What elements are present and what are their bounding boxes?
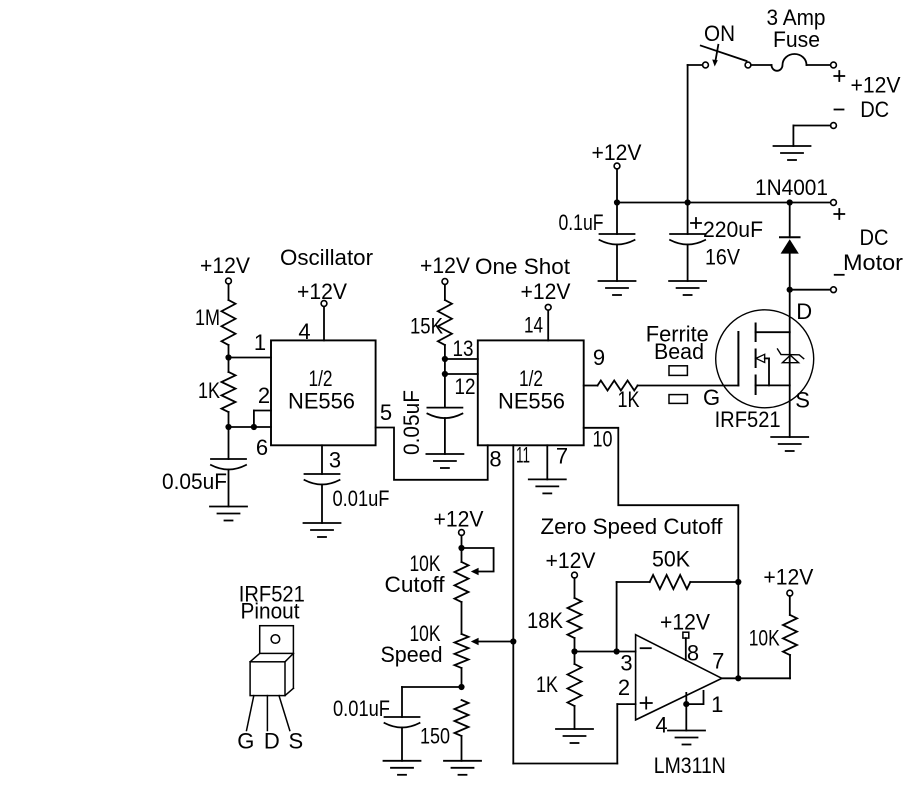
- svg-text:+12V: +12V: [521, 279, 571, 304]
- svg-text:+12V: +12V: [546, 548, 596, 573]
- svg-text:0.1uF: 0.1uF: [559, 210, 604, 235]
- svg-text:1/2: 1/2: [519, 366, 543, 391]
- svg-text:Cutoff: Cutoff: [385, 572, 446, 597]
- +12V terminal (10K pullup): [763, 564, 813, 615]
- svg-text:S: S: [288, 729, 303, 754]
- svg-text:+12V: +12V: [200, 253, 250, 278]
- svg-text:7: 7: [556, 444, 568, 469]
- wire pin2: [618, 675, 630, 700]
- +12V terminal (15K): [420, 253, 470, 300]
- svg-text:Fuse: Fuse: [773, 27, 820, 52]
- One Shot label: [475, 254, 570, 279]
- svg-text:9: 9: [593, 345, 605, 370]
- wire pin 10: [584, 427, 739, 679]
- svg-text:2: 2: [258, 383, 270, 408]
- svg-text:7: 7: [712, 649, 724, 674]
- svg-text:NE556: NE556: [288, 389, 355, 414]
- IRF521 pinout drawing: [237, 582, 305, 754]
- svg-text:0.05uF: 0.05uF: [399, 390, 424, 455]
- potentiometer R5b 10K Speed: [381, 621, 517, 687]
- svg-text:D: D: [264, 729, 280, 754]
- wire pin7 output: [712, 649, 790, 682]
- diode D1 1N4001: [755, 175, 828, 290]
- svg-text:4: 4: [655, 713, 667, 738]
- svg-text:1K: 1K: [536, 672, 558, 697]
- switch S1 ON: [701, 21, 751, 68]
- capacitor 0.1uF: [559, 203, 635, 282]
- ground (220uF): [669, 281, 706, 295]
- svg-text:+12V: +12V: [420, 253, 470, 278]
- svg-text:+12V: +12V: [592, 140, 642, 165]
- svg-text:1N4001: 1N4001: [755, 175, 828, 200]
- ground (C3): [426, 454, 463, 468]
- wire gate: [638, 385, 739, 387]
- svg-text:0.01uF: 0.01uF: [333, 486, 390, 511]
- node pin1 junction: [225, 330, 271, 361]
- +12V terminal at rail: [592, 140, 642, 203]
- svg-text:14: 14: [524, 313, 543, 338]
- fuse F1 3 Amp: [751, 5, 831, 71]
- svg-text:1M: 1M: [195, 305, 220, 330]
- svg-text:16V: 16V: [705, 245, 740, 270]
- svg-text:8: 8: [489, 447, 501, 472]
- ground (source): [771, 437, 808, 451]
- ground (R10): [444, 761, 481, 775]
- svg-text:G: G: [703, 385, 720, 410]
- Oscillator label: [280, 245, 373, 270]
- svg-text:12: 12: [455, 374, 476, 399]
- svg-text:10: 10: [593, 427, 613, 452]
- +12V terminal (pots): [434, 507, 484, 549]
- svg-text:Motor: Motor: [843, 250, 903, 275]
- ground (R7): [556, 729, 593, 743]
- ground (supply minus): [774, 146, 811, 160]
- ground (C4): [384, 761, 421, 775]
- resistor R7 1K: [536, 652, 582, 730]
- resistor R9 10K pullup: [749, 615, 797, 678]
- wire pin6: [225, 424, 271, 460]
- svg-text:Pinout: Pinout: [241, 599, 300, 624]
- svg-text:0.05uF: 0.05uF: [162, 469, 227, 494]
- ground (C1): [210, 507, 247, 521]
- svg-text:3: 3: [329, 448, 341, 473]
- resistor R10 150: [420, 700, 469, 761]
- svg-text:ON: ON: [704, 21, 735, 46]
- svg-text:0.01uF: 0.01uF: [333, 696, 390, 721]
- resistor R1 1M: [195, 300, 236, 358]
- svg-text:+12V: +12V: [851, 73, 901, 98]
- potentiometer R5a 10K Cutoff: [385, 545, 494, 634]
- svg-text:1K: 1K: [198, 378, 220, 403]
- +12V terminal (1M): [200, 253, 250, 300]
- Zero Speed Cutoff label: [541, 514, 724, 539]
- ferrite bead: [646, 322, 720, 411]
- pin 7 ground wire: [547, 444, 568, 480]
- svg-text:+12V: +12V: [660, 610, 710, 635]
- +12V terminal (18K): [546, 548, 596, 598]
- capacitor C2 0.01uF (pin 3): [305, 445, 390, 523]
- DC Motor terminals: [787, 200, 903, 293]
- capacitor C4 0.01uF: [333, 684, 465, 761]
- svg-text:3: 3: [620, 651, 632, 676]
- svg-text:DC: DC: [860, 225, 889, 250]
- svg-text:Oscillator: Oscillator: [280, 245, 373, 270]
- svg-text:IRF521: IRF521: [715, 407, 781, 432]
- svg-text:G: G: [237, 729, 254, 754]
- svg-text:Bead: Bead: [654, 339, 704, 364]
- svg-text:One Shot: One Shot: [475, 254, 570, 279]
- wire pin 11 down: [513, 443, 635, 764]
- transistor Q1 IRF521: [715, 310, 814, 432]
- wire source to ground: [790, 385, 810, 437]
- svg-text:1/2: 1/2: [309, 366, 333, 391]
- pin 8 +12V: [660, 610, 710, 666]
- svg-text:1: 1: [254, 330, 266, 355]
- wire +12V rail: [614, 199, 831, 205]
- ground (C2): [304, 523, 341, 537]
- svg-text:220uF: 220uF: [703, 217, 763, 242]
- svg-text:5: 5: [380, 400, 392, 425]
- svg-text:4: 4: [298, 319, 310, 344]
- wire drain: [790, 290, 812, 333]
- ground (pins 1 4): [668, 731, 705, 745]
- svg-text:D: D: [796, 299, 812, 324]
- wires pins 13 12: [442, 336, 478, 399]
- svg-text:10K: 10K: [749, 626, 780, 651]
- resistor R4 15K: [410, 300, 452, 374]
- wire switch to +12V rail: [688, 65, 703, 203]
- resistor R6 18K: [527, 598, 582, 652]
- wire pin5 to pin8: [376, 400, 502, 480]
- wire pin2 jog: [251, 383, 271, 430]
- op-amp U1a 1/2 NE556 oscillator box: [271, 340, 376, 445]
- op-amp U1b 1/2 NE556 one-shot box: [478, 340, 584, 445]
- +12V DC supply terminals: [793, 62, 900, 146]
- svg-text:1K: 1K: [618, 387, 640, 412]
- resistor R8 50K feedback: [617, 547, 742, 652]
- svg-text:18K: 18K: [527, 608, 563, 633]
- svg-text:+12V: +12V: [763, 564, 813, 589]
- svg-text:50K: 50K: [652, 547, 690, 572]
- pin 14 +12V: [521, 279, 571, 340]
- svg-text:DC: DC: [860, 97, 889, 122]
- svg-text:150: 150: [420, 724, 450, 749]
- svg-text:S: S: [795, 388, 810, 413]
- resistor R3 1K (gate): [584, 345, 640, 412]
- svg-text:LM311N: LM311N: [654, 753, 726, 778]
- svg-text:2: 2: [618, 675, 630, 700]
- svg-text:8: 8: [687, 641, 699, 666]
- pin 4 +12V: [297, 279, 347, 344]
- svg-text:+12V: +12V: [297, 279, 347, 304]
- capacitor 220uF 16V: [670, 203, 763, 282]
- wire pin1: [655, 691, 723, 738]
- svg-text:11: 11: [516, 443, 530, 468]
- svg-text:+12V: +12V: [434, 507, 484, 532]
- svg-text:1: 1: [711, 692, 723, 717]
- svg-text:Zero Speed Cutoff: Zero Speed Cutoff: [541, 514, 724, 539]
- svg-text:13: 13: [453, 336, 474, 361]
- svg-text:6: 6: [256, 435, 268, 460]
- ground (0.1uF): [599, 281, 636, 295]
- svg-text:NE556: NE556: [498, 389, 565, 414]
- capacitor C3 0.05uF: [399, 374, 462, 455]
- svg-text:Speed: Speed: [381, 642, 443, 667]
- resistor R2 1K: [198, 358, 236, 428]
- capacitor C1 0.05uF: [162, 427, 246, 507]
- op-amp U2 LM311N: [636, 635, 726, 778]
- ground (pin7): [529, 479, 566, 493]
- node pin3 junction / wire: [571, 648, 635, 675]
